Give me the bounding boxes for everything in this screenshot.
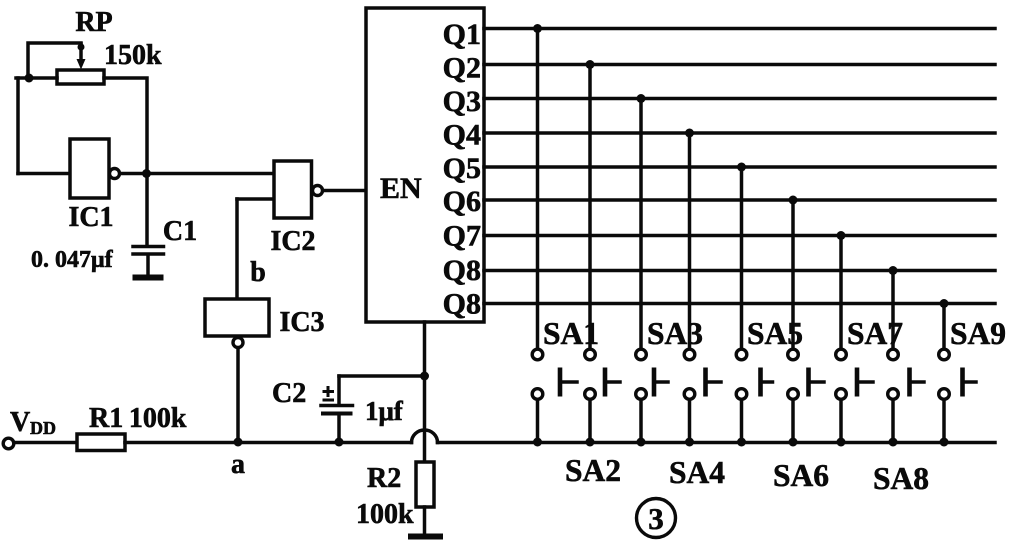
svg-text:SA5: SA5 — [747, 316, 803, 351]
terminal VDD — [3, 438, 14, 449]
svg-text:3: 3 — [648, 501, 664, 536]
wire SA6 drop — [791, 200, 795, 348]
svg-text:a: a — [231, 449, 245, 480]
label SA2 — [565, 453, 621, 488]
switch SA4 — [684, 349, 721, 399]
label SA3 — [647, 316, 703, 351]
svg-text:R1 100k: R1 100k — [89, 403, 187, 434]
svg-text:IC1: IC1 — [68, 202, 113, 233]
wire bottom rail right — [438, 441, 996, 445]
switch SA6 — [788, 349, 824, 399]
wire SA3 drop — [639, 99, 643, 348]
pin label EN — [380, 172, 422, 205]
pin label Q4 — [443, 119, 481, 152]
label R2 — [367, 463, 401, 494]
wire SA8 to rail — [889, 401, 898, 447]
wire Q3 line — [484, 97, 995, 101]
svg-text:SA9: SA9 — [950, 316, 1006, 351]
junction dot Q4 — [685, 129, 694, 138]
wire hop over R2 drop — [412, 430, 438, 443]
junction dot Q7 — [837, 231, 846, 240]
svg-text:100k: 100k — [356, 499, 414, 530]
label 1uf — [365, 396, 404, 426]
wire Q8 line — [484, 269, 995, 273]
junction node at C1 — [142, 169, 151, 178]
inverter IC1 — [70, 139, 120, 198]
wire IC2 output to EN — [323, 189, 366, 193]
switch SA2 — [585, 349, 620, 399]
wire SA4 to rail — [685, 401, 694, 447]
wire IC1 input — [18, 172, 70, 176]
wire SA9 to rail — [940, 401, 949, 447]
wire EN to R2 — [423, 322, 427, 462]
junction dot Q1 — [533, 24, 542, 33]
svg-text:Q7: Q7 — [443, 220, 481, 253]
svg-text:Q2: Q2 — [443, 52, 481, 85]
wire Q1 line — [484, 27, 995, 31]
wire Q4 line — [484, 131, 995, 135]
label 100k R2 — [356, 499, 414, 530]
wire main left y78 — [16, 76, 57, 80]
wire R1 to hop (bottom rail left) — [125, 441, 412, 445]
label node a — [231, 449, 245, 480]
label 150k — [104, 40, 162, 71]
label IC1 — [68, 202, 113, 233]
wire SA5 to rail — [737, 401, 746, 447]
junction node a — [234, 438, 243, 447]
junction dot left loop — [25, 74, 34, 83]
pin label Q7 — [443, 220, 481, 253]
svg-text:Q8: Q8 — [443, 254, 481, 287]
junction dot Q2 — [586, 60, 595, 69]
svg-text:IC2: IC2 — [270, 226, 315, 257]
switch SA9 — [939, 349, 976, 399]
IC3 — [205, 299, 269, 348]
svg-text:SA3: SA3 — [647, 316, 703, 351]
svg-text:SA6: SA6 — [773, 458, 829, 493]
wire SA3 to rail — [637, 401, 646, 447]
wire wiper loop — [28, 43, 81, 79]
svg-text:1μf: 1μf — [365, 396, 404, 426]
svg-text:Q8: Q8 — [443, 288, 481, 321]
gate IC2 — [274, 161, 323, 218]
wire SA6 to rail — [789, 401, 798, 447]
junction dot Q3 — [637, 94, 646, 103]
potentiometer RP — [57, 44, 104, 85]
svg-text:IC3: IC3 — [279, 307, 324, 338]
junction dot Q8 — [889, 266, 898, 275]
svg-text:0. 047μf: 0. 047μf — [31, 247, 114, 273]
wire RP right — [104, 78, 147, 174]
switch SA8 — [888, 349, 924, 399]
label RP — [75, 7, 112, 38]
wire node to C1 — [145, 174, 149, 246]
svg-text:b: b — [250, 257, 266, 288]
pin label Q3 — [443, 85, 481, 118]
pin label Q6 — [443, 185, 481, 218]
svg-text:V: V — [10, 407, 30, 438]
wire IC1 output to IC2 — [120, 172, 274, 176]
wire R2 to ground — [423, 507, 427, 534]
wire VDD to R1 — [14, 441, 77, 445]
wire Q6 line — [484, 198, 995, 202]
label SA6 — [773, 458, 829, 493]
label SA8 — [873, 461, 929, 496]
wire IC2 lower input — [237, 197, 274, 201]
ground bar C1 — [133, 275, 164, 281]
label VDD — [10, 407, 56, 438]
label SA7 — [847, 316, 903, 351]
pin label Q5 — [443, 152, 481, 185]
wire IC3 to node a — [236, 348, 240, 442]
svg-text:SA7: SA7 — [847, 316, 903, 351]
wire SA4 drop — [688, 133, 692, 348]
resistor R2 — [416, 462, 434, 507]
label SA1 — [543, 316, 599, 351]
pin label Q8 second — [443, 288, 481, 321]
wire SA1 drop — [536, 29, 540, 348]
wire SA2 drop — [588, 65, 592, 348]
label SA5 — [747, 316, 803, 351]
svg-text:Q4: Q4 — [443, 119, 481, 152]
svg-text:SA1: SA1 — [543, 316, 599, 351]
wire SA5 drop — [740, 167, 744, 348]
junction dot C2 rail — [335, 438, 344, 447]
svg-text:C1: C1 — [163, 216, 197, 247]
wire SA1 to rail — [533, 401, 542, 447]
figure number 3 — [637, 499, 676, 538]
pin label Q2 — [443, 52, 481, 85]
svg-text:DD: DD — [30, 418, 56, 438]
label 0.047uf — [31, 247, 114, 273]
IC U1 decade counter box — [366, 8, 484, 322]
svg-text:Q5: Q5 — [443, 152, 481, 185]
junction dot Q5 — [737, 163, 746, 172]
switch SA7 — [836, 349, 873, 399]
label node b — [250, 257, 266, 288]
label IC3 — [279, 307, 324, 338]
label C1 — [163, 216, 197, 247]
wire SA7 to rail — [837, 401, 846, 447]
resistor R1 — [77, 434, 125, 451]
wire SA9 drop — [942, 304, 946, 348]
wire SA8 drop — [891, 271, 895, 348]
svg-text:SA4: SA4 — [669, 455, 725, 490]
svg-text:Q3: Q3 — [443, 85, 481, 118]
label SA4 — [669, 455, 725, 490]
svg-text:R2: R2 — [367, 463, 401, 494]
svg-text:SA8: SA8 — [873, 461, 929, 496]
switch SA1 — [532, 349, 577, 399]
junction dot C2 tee — [420, 372, 429, 381]
wire node b vertical — [235, 199, 239, 300]
svg-text:RP: RP — [75, 7, 112, 38]
wire C2 branch top — [339, 374, 425, 378]
label R1 100k — [89, 403, 187, 434]
label SA9 — [950, 316, 1006, 351]
wire Q2 line — [484, 63, 995, 67]
pin label Q1 — [443, 18, 481, 51]
wire SA2 to rail — [586, 401, 595, 447]
label C2 — [272, 378, 306, 409]
junction dot Q6 — [789, 196, 798, 205]
svg-text:C2: C2 — [272, 378, 306, 409]
svg-text:SA2: SA2 — [565, 453, 621, 488]
wire Q8 second line — [484, 302, 995, 306]
svg-text:Q1: Q1 — [443, 18, 481, 51]
wire Q5 line — [484, 165, 995, 169]
switch SA5 — [736, 349, 772, 399]
label IC2 — [270, 226, 315, 257]
switch SA3 — [636, 349, 668, 399]
svg-text:150k: 150k — [104, 40, 162, 71]
svg-text:EN: EN — [380, 172, 422, 205]
capacitor C2 — [321, 376, 353, 442]
svg-text:Q6: Q6 — [443, 185, 481, 218]
wire SA7 drop — [839, 236, 843, 348]
junction dot Q8 second — [940, 299, 949, 308]
ground — [408, 534, 443, 540]
capacitor C1 — [133, 247, 164, 276]
pin label Q8 — [443, 254, 481, 287]
wire Q7 line — [484, 234, 995, 238]
wire left vertical — [16, 78, 20, 174]
